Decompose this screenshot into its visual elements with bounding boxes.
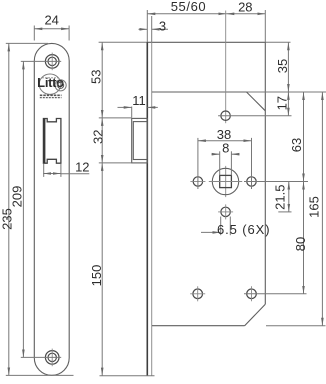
svg-text:165: 165 [306, 196, 321, 218]
svg-text:53: 53 [88, 70, 103, 84]
logo stamp [37, 74, 66, 98]
svg-text:24: 24 [44, 13, 58, 28]
dimension 11 [118, 93, 158, 117]
follower hub [209, 168, 242, 194]
dimension 12 [43, 159, 89, 177]
dimension 235 [0, 43, 74, 375]
lock case internal chamfer [247, 92, 266, 111]
dimension 63 [289, 92, 304, 182]
bottom left hole [190, 286, 205, 301]
dimension chain 53/32/150 [88, 42, 131, 375]
dimension 24 [34, 13, 69, 41]
svg-text:38: 38 [217, 127, 231, 142]
dimension 209 [10, 61, 62, 357]
side view top edge + extensions [99, 41, 148, 43]
dimension 21.5 [272, 182, 291, 212]
dimension 6.5 (6X) [201, 217, 270, 237]
lock case right edge [264, 10, 266, 42]
dimension 55/60 [147, 13, 226, 15]
lock case internal edge [152, 91, 247, 93]
svg-text:235: 235 [0, 208, 15, 230]
latch cutout inner edge [43, 119, 45, 164]
dimension 28 [226, 13, 265, 15]
dimension 3 [139, 19, 169, 34]
dimension 80 [293, 182, 308, 294]
hole left of follower [190, 138, 205, 189]
svg-text:55/60: 55/60 [171, 0, 207, 14]
dimension 165 [266, 92, 326, 326]
faceplate side view bottom extension [100, 375, 155, 377]
lower hole [218, 204, 233, 219]
faceplate side view back face [151, 16, 153, 42]
svg-text:3: 3 [159, 19, 166, 34]
svg-text:8: 8 [222, 141, 229, 156]
bottom right hole [244, 286, 307, 301]
svg-text:6.5 (6X): 6.5 (6X) [217, 222, 270, 237]
svg-text:150: 150 [89, 265, 104, 287]
svg-text:17: 17 [275, 96, 290, 110]
faceplate front view outline [34, 43, 69, 375]
svg-text:35: 35 [275, 59, 290, 73]
screw hole bottom [45, 349, 59, 367]
latch cutout on faceplate [43, 119, 61, 164]
upper hole [218, 111, 291, 120]
latch bolt side view [132, 118, 148, 162]
lock case bottom chamfer [245, 304, 266, 325]
svg-text:63: 63 [289, 138, 304, 152]
dimension 35 [275, 42, 290, 92]
screw hole top [45, 53, 59, 71]
svg-text:21.5: 21.5 [272, 185, 287, 210]
svg-text:80: 80 [293, 237, 308, 251]
dimension 38 [198, 127, 252, 142]
faceplate side view front face [146, 10, 148, 42]
hole right of follower [244, 138, 308, 189]
vertical centerline [225, 11, 227, 124]
dimension 8 [212, 141, 240, 176]
svg-text:11: 11 [132, 93, 146, 108]
dimension 17 [275, 92, 290, 116]
svg-text:28: 28 [238, 0, 252, 14]
svg-text:209: 209 [10, 186, 25, 208]
svg-text:12: 12 [75, 159, 89, 174]
svg-text:32: 32 [91, 130, 106, 144]
lock case bottom edge [152, 325, 245, 327]
